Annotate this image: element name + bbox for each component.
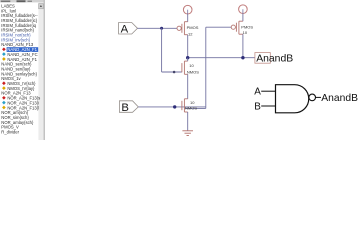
wire output bus [188,57,255,59]
svg-text:NMOS: NMOS [185,105,197,110]
sidebar cell list [1,3,40,134]
svg-text:10: 10 [189,63,194,68]
svg-text:R_divider: R_divider [1,130,19,135]
wire VDD1 to PMOS1 source [187,14,189,22]
pmos P1 [177,22,188,35]
svg-text:B: B [121,102,129,114]
node output junction right [241,56,244,59]
svg-text:NMOS: NMOS [187,69,199,74]
wire B to NMOS2 gate and beyond [138,106,206,108]
nmos N1 [182,61,188,74]
wire B to PMOS2 gate [206,26,232,28]
explorer sidebar background [0,0,44,140]
nand gate icon U1 [276,85,316,113]
wire VDD2 to PMOS2 source [242,14,244,22]
svg-text:AnandB: AnandB [321,93,358,104]
wire A branch down [161,28,163,72]
wire A branch to NMOS1 gate [162,71,182,73]
wire output to NMOS1 source [187,58,189,61]
wire PMOS2 drain to output [242,34,244,58]
ground [182,131,193,136]
nmos N2 [182,99,188,112]
svg-text:AnandB: AnandB [256,54,293,65]
sidebar scrollbar [38,3,43,140]
wire icon output [316,96,322,98]
svg-text:A: A [254,87,261,98]
pin mark on A branch [173,71,176,74]
sidebar panel divider [43,0,46,140]
svg-text:B: B [254,102,261,113]
node B junction [173,105,176,108]
power symbol VDD2 [239,5,248,14]
wire NMOS2 drain to ground [187,112,189,131]
wire icon input A [261,90,275,92]
node output junction left [186,56,189,59]
input pin B [119,101,138,114]
wire A to PMOS1 gate [138,27,178,29]
power symbol VDD1 [183,5,192,14]
svg-text:10: 10 [243,30,248,35]
input pin A [119,23,138,36]
wire PMOS1 drain to output [187,35,189,58]
svg-text:12: 12 [188,31,193,36]
export AnandB [255,53,293,65]
svg-text:10: 10 [190,100,195,105]
node A junction [160,27,163,30]
svg-text:A: A [121,24,129,36]
wire NMOS1 drain to NMOS2 source [187,74,189,99]
wire icon input B [261,105,275,107]
pmos P2 [231,21,243,34]
wire B riser [185,107,206,109]
svg-text:PMOS: PMOS [187,25,199,30]
